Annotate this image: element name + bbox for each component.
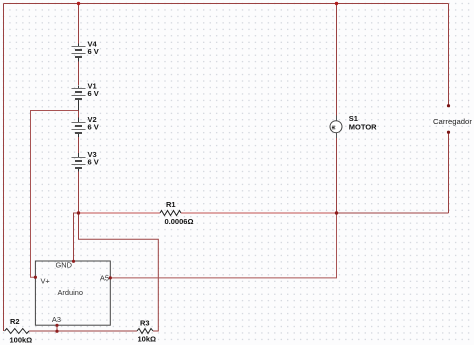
wire A3 stub (56, 325, 58, 331)
svg-text:R2: R2 (10, 317, 20, 326)
wire junction down to R3 branch (79, 213, 159, 331)
resistor R1 (160, 200, 193, 226)
node battery top junction (77, 2, 80, 5)
svg-text:Carregador: Carregador (433, 117, 472, 126)
node A5 pin (109, 276, 112, 279)
wire battery chain top (78, 4, 80, 44)
node motor top junction (335, 2, 338, 5)
svg-text:0.0006Ω: 0.0006Ω (165, 217, 194, 226)
wire R1 to motor node (181, 212, 337, 214)
svg-text:R3: R3 (140, 319, 150, 328)
charger Carregador (433, 117, 472, 126)
battery V1 (72, 81, 99, 110)
wire V2 to V3 (78, 137, 80, 154)
svg-text:100kΩ: 100kΩ (10, 336, 33, 345)
svg-text:6 V: 6 V (88, 122, 99, 131)
node A3 pin (55, 324, 58, 327)
motor S1 (330, 114, 377, 138)
node charger bottom terminal (447, 131, 450, 134)
node motor bottom junction (335, 211, 338, 214)
wire motor node to charger (337, 212, 449, 214)
battery V4 (72, 39, 99, 61)
Arduino U1 box (35, 261, 110, 326)
wire V1 to branch to V2 (78, 111, 80, 119)
svg-text:6 V: 6 V (88, 89, 99, 98)
svg-text:6 V: 6 V (88, 158, 99, 167)
wire bottom R2 to R3 (29, 330, 137, 332)
wire top horizontal (4, 3, 449, 5)
battery V2 (72, 115, 99, 137)
wire charger bottom (448, 132, 450, 213)
node A3 wire junction (55, 330, 58, 333)
node V+ pin (34, 276, 37, 279)
wire left vertical (3, 4, 5, 332)
svg-text:6 V: 6 V (88, 47, 99, 56)
wire charger top (448, 4, 450, 106)
svg-text:GND: GND (56, 261, 72, 270)
svg-text:A5: A5 (100, 274, 109, 283)
wire motor top (336, 4, 338, 121)
wire junction to GND (74, 213, 79, 261)
wire A5 to motor node (110, 213, 336, 278)
wire V3 to junction (78, 171, 80, 213)
battery V3 (72, 150, 99, 171)
node charger top terminal (447, 104, 450, 107)
svg-text:Arduino: Arduino (58, 288, 83, 297)
resistor R3 (137, 319, 156, 344)
node GND pin (72, 260, 75, 263)
svg-text:A3: A3 (52, 315, 61, 324)
wire junction to R1 (79, 212, 161, 214)
svg-text:R1: R1 (166, 200, 176, 209)
wire motor bottom (336, 133, 338, 213)
wire V4 to V1 (78, 61, 80, 85)
resistor R2 (5, 317, 33, 345)
node battery bottom junction (77, 211, 80, 214)
svg-text:10kΩ: 10kΩ (138, 335, 157, 344)
wire branch battery tap to V+ (31, 111, 79, 278)
svg-text:MOTOR: MOTOR (349, 123, 377, 132)
svg-text:V+: V+ (41, 277, 50, 286)
